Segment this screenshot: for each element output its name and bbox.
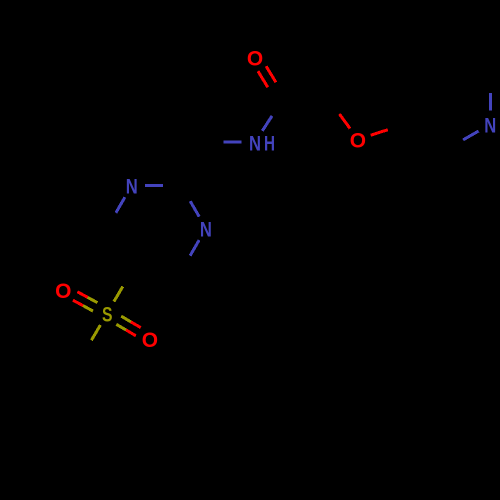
svg-text:O: O — [350, 129, 366, 153]
svg-text:N: N — [484, 113, 496, 137]
svg-text:N: N — [200, 218, 212, 242]
svg-text:O: O — [247, 46, 263, 70]
svg-text:N: N — [126, 175, 138, 199]
svg-text:H: H — [264, 131, 275, 155]
svg-text:N: N — [249, 131, 261, 155]
svg-text:O: O — [142, 328, 158, 352]
svg-text:O: O — [55, 279, 71, 303]
svg-text:S: S — [102, 303, 113, 327]
